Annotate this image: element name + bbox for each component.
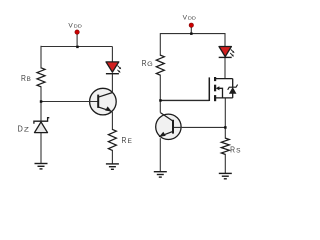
wire Q1 base: [41, 101, 98, 103]
svg-text:Z: Z: [24, 127, 29, 134]
junction node at RS tee: [224, 126, 227, 129]
wire right top rail: [160, 33, 225, 35]
junction node at M1 gate tee: [159, 99, 162, 102]
wire left branch lower: [40, 86, 42, 163]
transistor Q1 body: [90, 88, 117, 115]
wire RE to ground: [111, 150, 113, 164]
wire right branch lower: [159, 75, 161, 113]
wire LED D1 anode: [111, 47, 113, 63]
wire right branch upper: [159, 33, 161, 56]
svg-text:DD: DD: [74, 23, 83, 29]
MOSFET M1: [209, 77, 232, 101]
wire Q2 base to RS node: [174, 126, 226, 128]
svg-text:E: E: [128, 138, 132, 145]
wire LED D2 anode: [224, 33, 226, 47]
junction node at Q1 base tee: [40, 100, 43, 103]
junction node at VDD1 rail: [76, 46, 79, 49]
transistor Q1 internals: [98, 93, 112, 112]
transistor Q2 internals: [159, 113, 173, 137]
wire left branch upper: [40, 46, 42, 69]
ground at DZ: [35, 164, 48, 169]
svg-text:R: R: [21, 73, 26, 83]
svg-text:R: R: [122, 135, 127, 145]
wire LED D1 cathode to Q1 collector: [111, 74, 113, 93]
resistor RS: [221, 138, 229, 154]
wire left top rail: [41, 46, 112, 48]
ground at RS: [219, 173, 232, 178]
wire M1 gate lead: [160, 99, 209, 101]
power VDD1 dot: [75, 30, 79, 34]
zener diode DZ: [34, 118, 49, 133]
ground at RE: [106, 164, 119, 169]
transistor Q2 body: [156, 114, 181, 139]
wire Q1 emitter to RE: [111, 112, 113, 130]
wire LED D2 cathode to M1 drain: [224, 57, 226, 78]
svg-text:R: R: [142, 58, 147, 68]
svg-text:B: B: [27, 76, 31, 83]
wire VDD2 stem: [190, 26, 192, 34]
svg-text:DD: DD: [188, 15, 197, 21]
svg-text:G: G: [147, 61, 153, 68]
resistor RB: [37, 68, 45, 87]
junction node at VDD2 rail: [190, 32, 193, 35]
wire VDD1 stem: [76, 33, 78, 47]
LED D1: [106, 62, 121, 74]
body diode of M1: [228, 79, 238, 98]
LED D2: [219, 47, 235, 58]
power VDD2 dot: [189, 23, 193, 27]
wire Q2 emitter to ground: [159, 138, 161, 171]
resistor RG: [156, 55, 164, 75]
svg-text:S: S: [236, 148, 240, 155]
resistor RE: [108, 129, 116, 150]
ground at Q2 emitter: [154, 172, 167, 177]
svg-text:R: R: [230, 145, 235, 155]
wire RS to ground: [224, 154, 226, 174]
wire M1 source to RS: [224, 98, 226, 139]
svg-text:D: D: [18, 124, 23, 134]
